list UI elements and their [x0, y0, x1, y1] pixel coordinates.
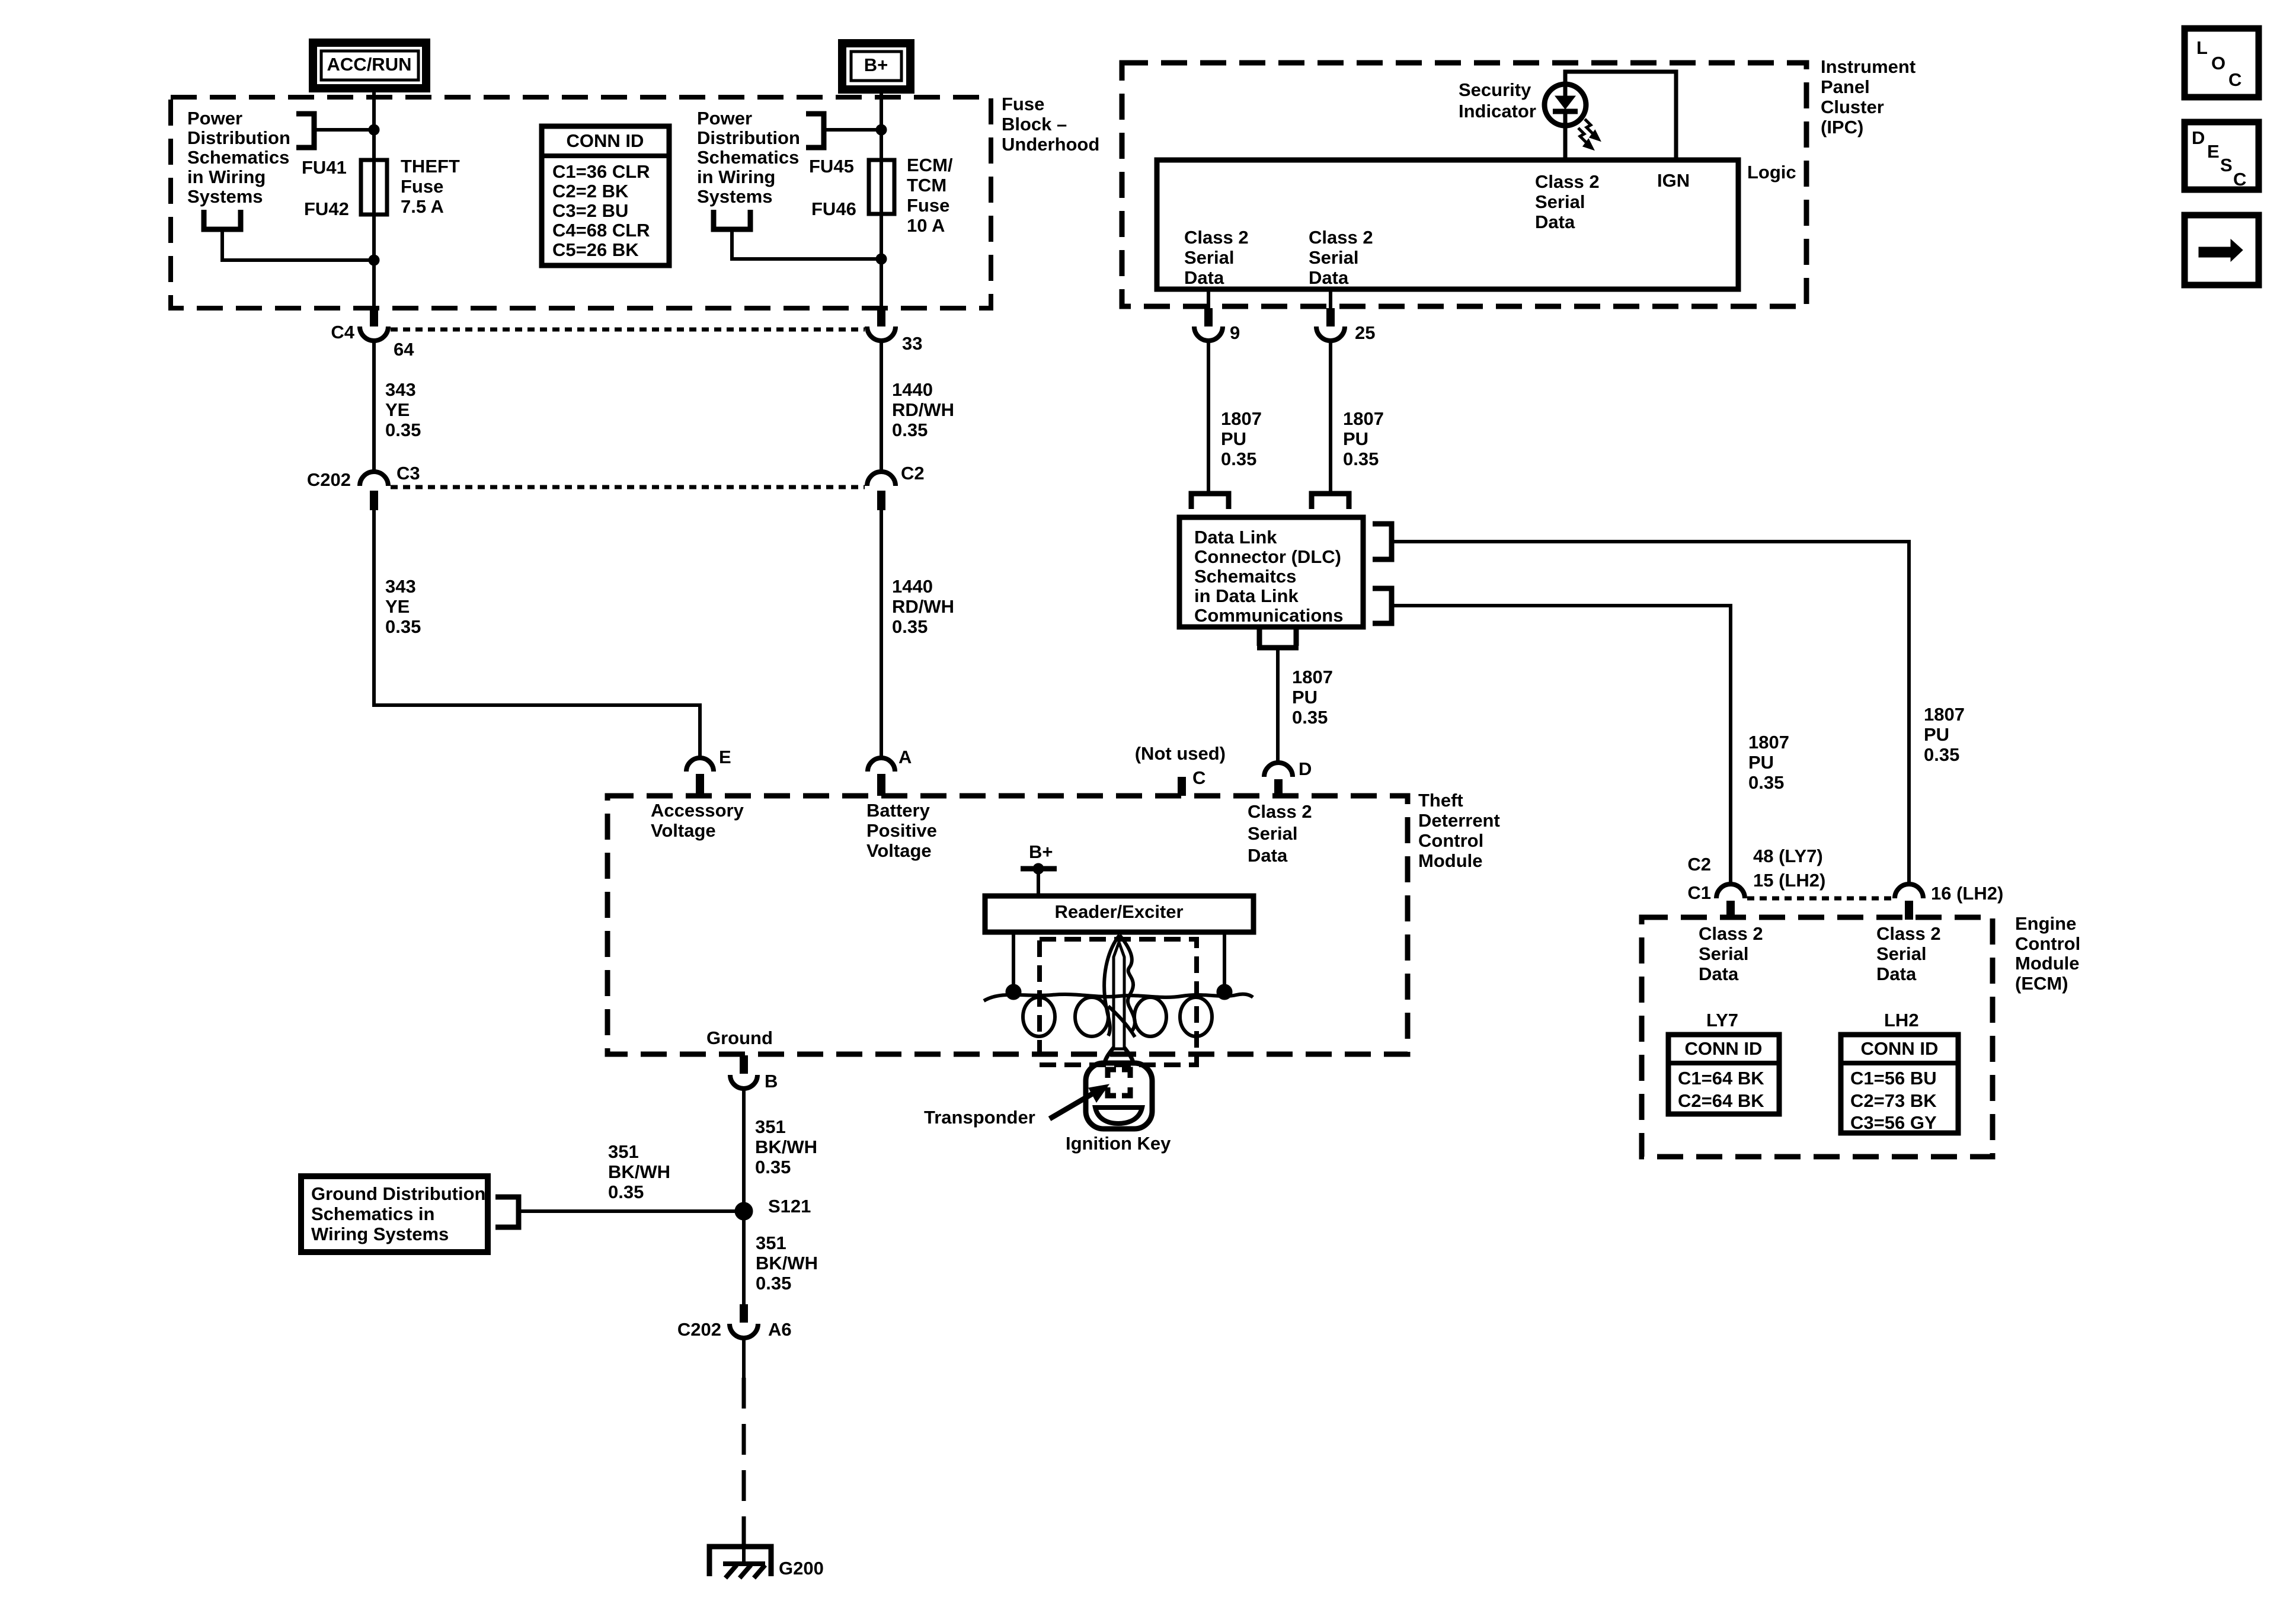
svg-text:Distribution: Distribution	[697, 127, 800, 148]
svg-text:1807: 1807	[1292, 667, 1333, 687]
svg-text:B+: B+	[864, 55, 888, 75]
svg-text:Class 2: Class 2	[1248, 801, 1312, 822]
svg-text:0.35: 0.35	[756, 1273, 791, 1294]
key head slot	[1095, 1108, 1142, 1124]
svg-text:1807: 1807	[1924, 704, 1965, 725]
junction node FU45	[876, 124, 887, 135]
svg-text:in Data Link: in Data Link	[1194, 585, 1299, 606]
svg-text:Security: Security	[1459, 79, 1531, 100]
svg-text:BK/WH: BK/WH	[608, 1161, 670, 1182]
svg-text:Data: Data	[1876, 964, 1917, 984]
antenna wavy wire	[984, 994, 1253, 1001]
svg-text:C1=64 BK: C1=64 BK	[1678, 1068, 1764, 1089]
svg-text:16 (LH2): 16 (LH2)	[1931, 883, 2003, 904]
connector pin 16 (ECM)	[1895, 884, 1923, 920]
DLC cavity staple left	[1191, 494, 1229, 509]
svg-text:Data: Data	[1309, 267, 1349, 288]
svg-text:C: C	[2228, 69, 2241, 90]
svg-text:0.35: 0.35	[1343, 449, 1379, 469]
svg-text:C2=2 BK: C2=2 BK	[552, 181, 629, 201]
ignition key blade	[1104, 935, 1135, 1049]
svg-text:C202: C202	[677, 1319, 721, 1340]
CONN ID table LH2	[1841, 1035, 1958, 1133]
svg-text:Communications: Communications	[1194, 605, 1343, 626]
svg-text:1440: 1440	[892, 576, 933, 597]
wire 1440 RD/WH segment 1	[880, 341, 883, 472]
svg-text:Ground Distribution: Ground Distribution	[311, 1183, 485, 1204]
svg-text:0.35: 0.35	[1221, 449, 1256, 469]
svg-text:C3=2 BU: C3=2 BU	[552, 200, 628, 221]
transponder pointer arrow	[1050, 1084, 1109, 1119]
bracket to left power distribution	[296, 114, 374, 148]
svg-text:E: E	[2207, 141, 2220, 162]
svg-text:YE: YE	[385, 399, 410, 420]
svg-text:Control: Control	[2015, 933, 2080, 954]
svg-text:Data: Data	[1699, 964, 1739, 984]
svg-text:(ECM): (ECM)	[2015, 973, 2068, 994]
svg-text:343: 343	[385, 576, 416, 597]
svg-text:B: B	[765, 1071, 778, 1092]
bracket ground distribution	[495, 1197, 744, 1227]
svg-text:Engine: Engine	[2015, 913, 2076, 934]
wire reader left leg	[1012, 932, 1015, 992]
svg-text:BK/WH: BK/WH	[756, 1253, 818, 1273]
svg-text:(IPC): (IPC)	[1821, 117, 1863, 137]
svg-text:Cluster: Cluster	[1821, 97, 1884, 117]
svg-text:Accessory: Accessory	[651, 800, 744, 821]
svg-text:Distribution: Distribution	[187, 127, 290, 148]
svg-text:Class 2: Class 2	[1535, 171, 1600, 192]
svg-text:Positive: Positive	[866, 820, 937, 841]
svg-text:CONN ID: CONN ID	[1861, 1038, 1939, 1059]
svg-text:C1=56 BU: C1=56 BU	[1850, 1068, 1937, 1089]
DLC bottom funnel	[1257, 627, 1299, 763]
svg-text:1440: 1440	[892, 379, 933, 400]
ignition key dashed box	[1040, 939, 1197, 1065]
svg-text:Fuse: Fuse	[1002, 94, 1044, 114]
connector C202 pin C2	[867, 472, 896, 510]
wire 1807 PU pin 25 to DLC	[1329, 341, 1332, 492]
svg-text:PU: PU	[1343, 428, 1368, 449]
svg-text:Reader/Exciter: Reader/Exciter	[1054, 901, 1183, 922]
fuse FU41/FU42 THEFT 7.5A symbol	[361, 160, 387, 215]
Reader/Exciter box	[985, 896, 1253, 932]
wire ground B to S121	[742, 1089, 746, 1304]
svg-text:C4: C4	[331, 322, 354, 343]
svg-text:351: 351	[756, 1233, 786, 1253]
svg-text:25: 25	[1355, 322, 1375, 343]
svg-text:C: C	[2233, 169, 2246, 190]
svg-text:YE: YE	[385, 596, 410, 617]
connector pin D	[1264, 763, 1293, 796]
connector C202 pin A6	[730, 1304, 758, 1338]
wire reader right leg	[1223, 932, 1226, 992]
svg-text:7.5 A: 7.5 A	[401, 196, 444, 217]
svg-text:D: D	[1299, 758, 1312, 779]
svg-text:Serial: Serial	[1535, 191, 1585, 212]
connector C202 pin C3	[360, 472, 388, 510]
ECM connector dashed line	[1747, 897, 1892, 901]
wire ACC/RUN vertical	[372, 88, 376, 308]
wire 1440 RD/WH segment 2	[880, 510, 883, 758]
ignition key head	[1086, 1063, 1152, 1129]
svg-text:Battery: Battery	[866, 800, 930, 821]
svg-text:9: 9	[1230, 322, 1240, 343]
svg-text:(Not used): (Not used)	[1135, 743, 1226, 764]
svg-text:0.35: 0.35	[385, 616, 421, 637]
svg-text:10 A: 10 A	[907, 215, 945, 236]
connector pin A	[868, 758, 895, 796]
svg-text:A6: A6	[768, 1319, 792, 1340]
svg-text:C5=26 BK: C5=26 BK	[552, 239, 639, 260]
svg-text:Systems: Systems	[697, 186, 773, 207]
coil ellipse 4	[1180, 997, 1212, 1036]
svg-text:RD/WH: RD/WH	[892, 399, 954, 420]
svg-text:Logic: Logic	[1747, 162, 1796, 183]
svg-text:0.35: 0.35	[892, 616, 928, 637]
fuse FU45/FU46 ECM/TCM symbol	[869, 160, 894, 214]
ground distribution box	[301, 1176, 488, 1252]
svg-text:Power: Power	[697, 108, 752, 129]
svg-text:FU42: FU42	[304, 199, 349, 219]
DLC right bracket lower	[1373, 588, 1392, 623]
wire 1807 PU pin 9 to DLC	[1207, 341, 1210, 492]
dashed wire to G200	[742, 1378, 746, 1548]
svg-text:B+: B+	[1029, 841, 1053, 862]
transponder corner marks	[1108, 1070, 1130, 1096]
svg-text:Systems: Systems	[187, 186, 263, 207]
svg-text:C1=36 CLR: C1=36 CLR	[552, 161, 650, 182]
junction node FU42	[369, 255, 379, 265]
fuse block - underhood dashed box	[171, 97, 991, 308]
wire 343 YE segment 2	[374, 510, 700, 758]
svg-text:Data: Data	[1184, 267, 1224, 288]
svg-text:Panel: Panel	[1821, 76, 1870, 97]
bracket wire from Systems text (left)	[204, 210, 374, 260]
DESC nav box	[2185, 122, 2259, 190]
svg-text:FU41: FU41	[302, 157, 347, 178]
svg-text:S121: S121	[768, 1196, 811, 1217]
svg-text:CONN ID: CONN ID	[567, 130, 644, 151]
svg-text:A: A	[898, 747, 912, 767]
svg-text:Voltage: Voltage	[651, 820, 716, 841]
svg-text:ECM/: ECM/	[907, 155, 953, 175]
svg-text:Voltage: Voltage	[866, 840, 932, 861]
svg-text:Class 2: Class 2	[1699, 923, 1763, 944]
svg-text:48 (LY7): 48 (LY7)	[1753, 846, 1823, 866]
svg-text:Serial: Serial	[1248, 823, 1297, 844]
svg-text:Module: Module	[1418, 850, 1483, 871]
connector pin B	[730, 1055, 757, 1089]
connector dashed line row2	[391, 485, 865, 489]
splice dot right (reader)	[1217, 984, 1232, 1000]
security indicator LED	[1544, 84, 1586, 160]
LED loop wire to IGN	[1565, 72, 1676, 160]
splice S121	[735, 1202, 753, 1220]
ground G200 symbol	[709, 1547, 771, 1578]
svg-text:C2: C2	[901, 463, 925, 484]
svg-text:Fuse: Fuse	[907, 195, 949, 216]
instrument panel cluster dashed box	[1122, 63, 1806, 306]
svg-text:in Wiring: in Wiring	[697, 167, 775, 187]
svg-text:Class 2: Class 2	[1309, 227, 1373, 248]
svg-text:Schematics: Schematics	[697, 147, 799, 168]
svg-text:C3: C3	[396, 463, 420, 484]
bracket to right power distribution	[806, 114, 881, 148]
svg-text:FU46: FU46	[811, 199, 856, 219]
LED emission arrows	[1578, 119, 1598, 148]
svg-text:IGN: IGN	[1657, 170, 1690, 191]
svg-text:0.35: 0.35	[1748, 772, 1784, 793]
svg-text:in Wiring: in Wiring	[187, 167, 266, 187]
svg-text:E: E	[719, 747, 731, 767]
svg-text:351: 351	[755, 1116, 786, 1137]
B+ T-bar terminal	[1021, 863, 1057, 896]
svg-text:Data Link: Data Link	[1194, 527, 1277, 548]
svg-text:Power: Power	[187, 108, 242, 129]
svg-text:0.35: 0.35	[1292, 707, 1328, 728]
svg-text:64: 64	[394, 339, 414, 360]
ACC/RUN power label box	[313, 43, 426, 88]
svg-text:Block –: Block –	[1002, 114, 1067, 135]
CONN ID table LY7	[1668, 1035, 1779, 1114]
LOC nav box	[2185, 28, 2259, 97]
svg-text:C2=73 BK: C2=73 BK	[1850, 1090, 1937, 1111]
svg-text:THEFT: THEFT	[401, 156, 460, 177]
connector pin C1 (ECM)	[1716, 884, 1745, 920]
svg-text:0.35: 0.35	[1924, 744, 1959, 765]
data link connector (DLC) box	[1179, 517, 1363, 627]
CONN ID table (C202)	[542, 126, 669, 265]
B+ power label box	[842, 43, 910, 89]
svg-text:33: 33	[902, 333, 922, 354]
svg-text:D: D	[2192, 127, 2205, 148]
wire 343 YE segment 1	[372, 341, 376, 472]
connector pin E	[686, 758, 714, 796]
svg-text:TCM: TCM	[907, 175, 946, 196]
svg-text:Schemaitcs: Schemaitcs	[1194, 566, 1296, 587]
svg-text:Ignition Key: Ignition Key	[1066, 1133, 1171, 1154]
svg-text:Control: Control	[1418, 830, 1483, 851]
svg-text:LH2: LH2	[1884, 1010, 1919, 1030]
svg-text:Serial: Serial	[1309, 247, 1358, 268]
svg-text:Connector (DLC): Connector (DLC)	[1194, 546, 1341, 567]
logic box	[1157, 160, 1738, 289]
wire DLC to ECM pin C1	[1392, 606, 1731, 884]
coil ellipse 3	[1134, 997, 1166, 1036]
svg-text:Instrument: Instrument	[1821, 56, 1916, 77]
theft deterrent control module dashed box	[607, 796, 1408, 1054]
svg-text:1807: 1807	[1748, 732, 1789, 753]
wire below C202	[742, 1338, 746, 1378]
svg-text:351: 351	[608, 1141, 639, 1162]
svg-text:PU: PU	[1292, 687, 1318, 708]
svg-text:Class 2: Class 2	[1184, 227, 1249, 248]
svg-text:Schematics: Schematics	[187, 147, 289, 168]
svg-text:0.35: 0.35	[385, 420, 421, 440]
svg-text:Theft: Theft	[1418, 790, 1463, 811]
svg-text:ACC/RUN: ACC/RUN	[327, 54, 412, 75]
svg-text:Serial: Serial	[1699, 943, 1748, 964]
junction node FU46	[876, 254, 887, 264]
svg-text:0.35: 0.35	[755, 1157, 791, 1177]
svg-text:Schematics in: Schematics in	[311, 1204, 434, 1224]
svg-text:Indicator: Indicator	[1459, 101, 1536, 121]
DLC cavity staple right	[1312, 494, 1349, 509]
engine control module dashed box	[1642, 917, 1993, 1157]
svg-text:RD/WH: RD/WH	[892, 596, 954, 617]
bracket wire from Systems text (right)	[714, 210, 881, 259]
coil ellipse 2	[1075, 997, 1108, 1036]
svg-text:0.35: 0.35	[892, 420, 928, 440]
svg-text:Serial: Serial	[1184, 247, 1234, 268]
connector dashed line row1	[391, 328, 865, 332]
svg-text:Deterrent: Deterrent	[1418, 810, 1500, 831]
svg-text:Data: Data	[1248, 845, 1288, 866]
svg-text:BK/WH: BK/WH	[755, 1137, 817, 1157]
wire B+ vertical	[880, 89, 883, 308]
svg-text:343: 343	[385, 379, 416, 400]
svg-text:LY7: LY7	[1706, 1010, 1738, 1030]
svg-text:CONN ID: CONN ID	[1685, 1038, 1763, 1059]
svg-text:Module: Module	[2015, 953, 2080, 974]
svg-text:Data: Data	[1535, 212, 1575, 232]
svg-text:O: O	[2211, 53, 2225, 73]
svg-text:15 (LH2): 15 (LH2)	[1753, 870, 1825, 891]
svg-text:Underhood: Underhood	[1002, 134, 1099, 155]
svg-text:0.35: 0.35	[608, 1182, 644, 1202]
svg-text:1807: 1807	[1343, 408, 1384, 429]
svg-text:PU: PU	[1748, 752, 1774, 773]
svg-text:Class 2: Class 2	[1876, 923, 1941, 944]
ignition key neck	[1105, 1048, 1133, 1062]
svg-text:PU: PU	[1221, 428, 1246, 449]
splice dot left (reader)	[1006, 984, 1021, 1000]
svg-text:Fuse: Fuse	[401, 176, 443, 197]
connector 33	[867, 308, 896, 341]
svg-text:1807: 1807	[1221, 408, 1262, 429]
svg-text:PU: PU	[1924, 724, 1949, 745]
svg-text:Ground: Ground	[706, 1028, 773, 1048]
svg-text:Serial: Serial	[1876, 943, 1926, 964]
svg-text:C2=64 BK: C2=64 BK	[1678, 1090, 1764, 1111]
DLC right bracket upper	[1373, 524, 1392, 559]
svg-text:C4=68 CLR: C4=68 CLR	[552, 220, 650, 241]
arrow nav box	[2185, 215, 2259, 285]
junction node FU41	[369, 124, 379, 135]
svg-text:Wiring Systems: Wiring Systems	[311, 1224, 449, 1244]
connector C4 pin 64	[360, 308, 388, 341]
svg-text:S: S	[2220, 155, 2233, 175]
svg-text:G200: G200	[779, 1558, 824, 1579]
svg-text:C2: C2	[1687, 854, 1711, 875]
connector pin 9	[1194, 289, 1223, 341]
svg-text:Transponder: Transponder	[924, 1107, 1035, 1128]
wire DLC to ECM pin 16	[1392, 542, 1909, 884]
svg-text:FU45: FU45	[809, 156, 854, 177]
svg-text:C3=56 GY: C3=56 GY	[1850, 1112, 1937, 1133]
pin C stub (not used)	[1178, 777, 1186, 796]
connector pin 25	[1316, 289, 1345, 341]
svg-text:C1: C1	[1687, 882, 1711, 903]
svg-text:C: C	[1192, 767, 1205, 788]
svg-text:C202: C202	[307, 469, 351, 490]
svg-text:L: L	[2196, 37, 2208, 58]
coil ellipse 1	[1023, 997, 1055, 1036]
